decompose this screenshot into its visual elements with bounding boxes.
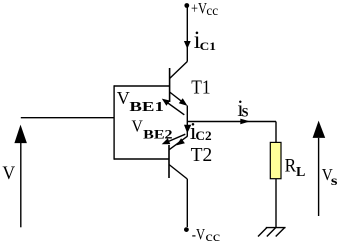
svg-text:C1: C1 — [200, 41, 217, 53]
svg-text:V: V — [132, 116, 143, 135]
wire from +Vcc down to T1 collector — [186, 6, 188, 62]
transistor T2 collector — [169, 165, 187, 180]
svg-text:V: V — [117, 88, 130, 108]
svg-text:C2: C2 — [195, 129, 211, 143]
wire resistor to ground — [275, 179, 277, 228]
transistor T2 base bar — [168, 145, 170, 178]
wire output horizontal to load — [187, 121, 276, 123]
voltage arrow V input — [14, 125, 27, 144]
svg-text:V: V — [2, 164, 15, 184]
+Vcc supply node dot — [184, 3, 189, 8]
voltage arrow VBE2 — [166, 134, 185, 142]
svg-text:S: S — [242, 106, 249, 120]
wire T2 base — [114, 158, 169, 160]
svg-text:T2: T2 — [191, 144, 213, 166]
voltage arrow Vs — [313, 121, 326, 138]
current arrow iC1 — [184, 41, 191, 49]
svg-text:BE1: BE1 — [129, 99, 164, 114]
wire input node vertical joining both bases — [113, 85, 115, 159]
-Vcc supply node dot — [184, 227, 189, 232]
transistor T1 base bar — [169, 68, 171, 102]
wire input horizontal — [21, 117, 114, 119]
transistor T2 emitter with PNP arrow — [169, 136, 187, 150]
svg-text:L: L — [296, 165, 305, 180]
svg-text:T1: T1 — [191, 77, 210, 99]
wire collector T2 down to -Vcc — [186, 179, 188, 227]
ground — [266, 227, 286, 229]
svg-text:cc: cc — [205, 229, 220, 244]
svg-text:-V: -V — [192, 227, 206, 244]
transistor T1 collector — [170, 62, 188, 79]
svg-text:cc: cc — [206, 3, 218, 18]
wire emitter junction vertical — [186, 106, 188, 137]
current arrow iS — [240, 119, 250, 125]
resistor RL — [270, 142, 281, 178]
svg-text:R: R — [285, 155, 297, 176]
current arrow iC2 — [184, 125, 191, 134]
svg-text:+V: +V — [191, 0, 207, 17]
wire T1 base — [114, 85, 170, 87]
svg-text:s: s — [331, 173, 338, 188]
voltage arrow VBE1 — [167, 102, 185, 115]
wire down to resistor — [275, 122, 277, 143]
transistor T1 emitter with NPN arrow — [170, 92, 184, 103]
